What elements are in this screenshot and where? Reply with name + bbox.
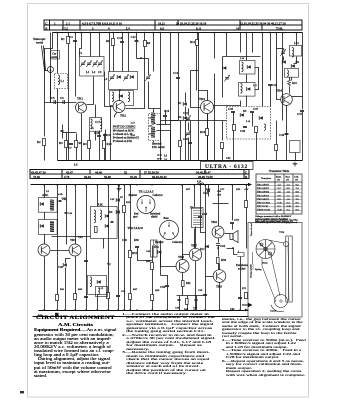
svg-text:R1: R1	[61, 37, 65, 41]
IF transformer box L10 FM	[240, 61, 256, 75]
wire R58 top	[246, 185, 248, 201]
wire C14 top	[178, 33, 180, 78]
resistor R16	[200, 129, 209, 136]
svg-text:44,40: 44,40	[95, 171, 102, 175]
junction dots bus2	[43, 184, 247, 186]
wire emitter row	[177, 295, 204, 297]
coil box L15b	[285, 69, 299, 78]
capacitor C7b	[61, 131, 64, 132]
capacitor C37	[250, 107, 259, 113]
wire T1 feed top	[194, 185, 196, 208]
wire r16 down	[207, 136, 209, 161]
junction dots bus3	[43, 309, 241, 311]
switch contact 2	[150, 123, 156, 126]
svg-text:C45: C45	[110, 198, 115, 201]
AM IFT6 box	[88, 276, 107, 295]
svg-text:R62: R62	[186, 282, 191, 285]
diode D6	[291, 61, 299, 68]
choke L19 on bus	[198, 183, 204, 185]
wire trimmer bank feed 2	[99, 33, 101, 57]
resistor R3	[59, 141, 68, 148]
wire to TR9	[218, 264, 220, 272]
wire TR5 collector rail	[75, 185, 77, 245]
svg-text:TR6: TR6	[178, 255, 184, 259]
resistor R65	[107, 293, 110, 299]
wire det feed stub	[226, 33, 228, 57]
AM IFT4 box	[39, 198, 58, 213]
svg-text:TR3: TR3	[199, 97, 205, 101]
wire TR4 collector link	[292, 96, 303, 98]
wire to speaker	[225, 233, 230, 235]
svg-text:TR7: TR7	[191, 244, 197, 248]
wire C10 btm	[122, 43, 124, 72]
svg-text:54,46,53,47: 54,46,53,47	[196, 171, 211, 175]
transistor pinout TR6-10 circle	[160, 221, 179, 240]
svg-text:(V): (V)	[295, 179, 298, 182]
ground TR4 stage	[293, 162, 298, 166]
svg-text:Transistor Table: Transistor Table	[269, 169, 290, 173]
svg-text:Base: Base	[286, 177, 291, 179]
wire TR9 emitter	[219, 283, 221, 311]
capacitor C47	[297, 111, 304, 117]
svg-text:TR1 AF117: TR1 AF117	[257, 184, 270, 187]
dial slider inner	[288, 237, 290, 301]
capacitor C61	[238, 298, 242, 299]
svg-text:C64: C64	[220, 244, 226, 248]
capacitor C46	[279, 133, 289, 137]
resistor R18 zigzag	[288, 79, 291, 86]
capacitor C51b	[84, 297, 88, 298]
arrow 2A node	[157, 158, 167, 162]
resistor R17	[179, 141, 182, 147]
svg-text:22,91,34,32,33 30,94 36 40,21,: 22,91,34,32,33 30,94 36 40,21,27 26	[240, 21, 286, 25]
wire if rail 2	[198, 33, 200, 91]
wire R4 btm	[89, 149, 91, 161]
wire vertical v1	[252, 33, 254, 53]
svg-text:(V): (V)	[286, 179, 289, 182]
resistor R61	[56, 295, 59, 301]
FM discriminator box	[91, 207, 118, 239]
IF transformer box L11 FM	[239, 83, 256, 97]
wire c22 up	[188, 109, 190, 116]
wire TR5a emitter	[44, 257, 46, 311]
transistor TR3	[199, 97, 214, 114]
transistor TR7	[189, 244, 201, 261]
diode D11	[200, 245, 209, 252]
wire sch2 lower rail	[33, 316, 249, 318]
coil IFT1 secondary	[100, 119, 102, 129]
svg-text:Base: Base	[164, 217, 170, 220]
wire link y203	[213, 203, 229, 205]
wire socket A down	[50, 73, 52, 103]
wire TR8 collector	[218, 185, 220, 227]
wire R58 btm	[246, 208, 248, 249]
wire R50 btm	[124, 213, 126, 311]
capacitor C49b	[135, 247, 139, 248]
wire earphone down	[240, 257, 242, 311]
wire gnd stub	[119, 185, 121, 187]
tuning trimmer bank box	[80, 57, 105, 77]
wire osc row	[137, 58, 149, 60]
coil winding IFT4	[50, 200, 54, 211]
wire L14 to D6	[294, 57, 297, 64]
wire L14 top	[296, 33, 298, 46]
coil osc ter	[128, 92, 130, 102]
wire r23 down	[256, 133, 258, 140]
bottom row labels	[175, 307, 198, 311]
ground sch2 left	[117, 187, 122, 191]
wire TR6 emitter	[182, 273, 184, 296]
wire C60 btm	[201, 218, 206, 233]
wire jog c16a	[157, 124, 171, 126]
HT arrow sch2	[245, 309, 248, 312]
svg-text:TR7 OC81: TR7 OC81	[257, 205, 269, 208]
svg-text:Coll.: Coll.	[294, 177, 299, 179]
svg-text:D9: D9	[109, 211, 113, 214]
T1 winding lines	[193, 209, 202, 225]
capacitor C58	[178, 300, 181, 301]
svg-text:TR3 AF116: TR3 AF116	[257, 191, 270, 194]
svg-text:29,09 74,58: 29,09 74,58	[198, 175, 213, 179]
wire left rail	[45, 33, 53, 103]
svg-text:socket: socket	[238, 267, 246, 270]
diode AM 3	[97, 280, 101, 284]
svg-text:C4: C4	[69, 35, 73, 39]
wire rail e	[205, 185, 207, 311]
svg-text:Cursor: Cursor	[270, 311, 277, 313]
diode AM det 2	[40, 224, 44, 228]
model label box ULTRA 6132	[201, 162, 254, 170]
wire earth bus bottom	[58, 160, 303, 162]
sch2 bottom labels	[60, 287, 247, 293]
junction osc	[140, 57, 142, 59]
wire c61 up	[208, 185, 210, 191]
wire c44 low	[66, 214, 68, 245]
wire TR5 base link	[51, 250, 70, 252]
index bar 2 row R text	[33, 175, 248, 179]
wire rail r1 low	[214, 74, 216, 161]
wire C10 top	[122, 33, 124, 42]
svg-text:R51: R51	[132, 251, 138, 255]
wire agc drop 2	[222, 121, 224, 141]
wire box to bus 1	[233, 140, 235, 161]
wire rail r1	[214, 33, 216, 59]
index bar 1 row C text	[45, 21, 286, 25]
svg-text:R56: R56	[221, 258, 227, 262]
wire C57 down	[232, 224, 234, 230]
coil L18 stripes	[151, 127, 155, 137]
coil L17 stripes	[151, 113, 155, 123]
coil L17 winding	[151, 113, 155, 124]
svg-text:R45: R45	[146, 260, 151, 263]
wire osc link	[120, 90, 122, 91]
wire c16 down	[165, 117, 167, 125]
driver transformer T1 box	[192, 208, 204, 228]
resistor R50	[123, 206, 126, 213]
capacitor C56	[160, 285, 169, 289]
dial pulley hub	[280, 300, 282, 302]
scan mark bottom left	[20, 391, 24, 393]
svg-text:shield: shield	[151, 216, 158, 219]
capacitor C53	[116, 296, 120, 297]
diode in L11	[247, 87, 251, 91]
wire trimmer bank feed	[90, 33, 92, 57]
wire sch2 bottom bus	[39, 310, 249, 312]
alignment text column 3	[222, 318, 306, 378]
wire c60b down	[196, 301, 198, 311]
wire C14 btm	[178, 79, 180, 121]
wire R1 bottom	[68, 44, 70, 161]
resistor R23	[255, 127, 258, 133]
svg-text:TR4 AF114: TR4 AF114	[257, 194, 270, 197]
wire R3 top	[66, 133, 68, 141]
svg-text:C53: C53	[121, 290, 126, 293]
wire rail f	[232, 185, 234, 221]
svg-text:F=closed on F.M.: F=closed on F.M.	[113, 140, 133, 143]
wire gang link	[80, 33, 82, 57]
svg-text:56,80: 56,80	[104, 175, 111, 179]
wire det right link	[255, 68, 259, 90]
svg-text:5 L2: 5 L2	[62, 26, 68, 30]
svg-text:TR2 AF117: TR2 AF117	[257, 187, 270, 190]
car aerial socket box	[51, 51, 60, 60]
svg-text:Collector: Collector	[153, 194, 164, 197]
resistor R58	[245, 201, 248, 208]
arrow L6 node	[157, 154, 168, 158]
wire R18 link	[289, 78, 291, 80]
svg-text:TR5: TR5	[78, 236, 83, 239]
svg-text:4.5B: 4.5B	[58, 193, 63, 196]
junction TR8-9	[217, 247, 219, 249]
wire r66 up	[187, 296, 189, 299]
wire earphone feed	[227, 249, 238, 255]
svg-text:Collector: Collector	[172, 241, 183, 244]
wire c44 top	[66, 185, 68, 213]
capacitor C12	[131, 35, 139, 42]
svg-text:R57: R57	[186, 188, 191, 191]
wire rail r3	[270, 33, 272, 81]
svg-text:Tuning spindle: Tuning spindle	[250, 264, 253, 278]
svg-text:C62: C62	[230, 308, 235, 311]
component index bar 2 frame	[30, 170, 249, 179]
capacitor C50	[84, 261, 88, 262]
wire C36 top	[283, 49, 285, 51]
bus2 end arrow	[244, 183, 252, 191]
transistor TR6	[176, 255, 189, 273]
wire right rail low	[302, 112, 304, 161]
wire switch down	[153, 141, 155, 143]
resistor R4	[83, 141, 91, 149]
diode FM 2	[105, 224, 109, 228]
wire ratio feed	[246, 33, 248, 61]
index bar 2 row C text	[31, 171, 247, 175]
svg-text:C43: C43	[62, 198, 67, 201]
dial cord run 3	[262, 258, 276, 302]
svg-text:C37: C37	[253, 107, 259, 111]
wire rail x50	[50, 33, 52, 103]
wire R9 top	[144, 33, 146, 41]
svg-text:ULTRA - 6132: ULTRA - 6132	[205, 164, 248, 170]
wire C36 link	[277, 48, 284, 50]
wire rail r3 low	[270, 86, 272, 107]
svg-text:6,8: 6,8	[160, 26, 164, 30]
svg-text:C59: C59	[198, 289, 203, 292]
resistor R66	[186, 299, 189, 305]
diode D5b	[240, 110, 247, 117]
capacitor C20	[268, 83, 278, 87]
resistor R22	[275, 145, 278, 151]
component index bar 1 frame	[44, 20, 302, 30]
dial cursor bracket	[271, 305, 284, 312]
svg-text:Drum: Drum	[262, 263, 268, 265]
svg-text:C49: C49	[146, 250, 151, 253]
svg-text:F.M. aerial: F.M. aerial	[152, 146, 165, 149]
wire TR2 out	[126, 59, 145, 109]
capacitor C46b	[111, 222, 114, 223]
svg-text:TR8: TR8	[211, 220, 217, 224]
wire C56 down	[167, 287, 169, 311]
wire TR3 emitter	[207, 114, 209, 161]
wire TR2 collector up	[119, 90, 121, 101]
wire r22 top	[276, 121, 278, 145]
trimmer det	[224, 75, 230, 82]
wire TR4 base rail	[277, 33, 281, 100]
wire TR9 base	[206, 276, 214, 278]
wire TR9 collector	[219, 264, 221, 270]
wire to FM aerial	[149, 82, 161, 109]
svg-text:C7: C7	[68, 146, 72, 150]
transistor pinout TR1-5 circle	[137, 196, 155, 214]
wire c7b up	[62, 125, 64, 131]
dial cord run 1	[268, 240, 289, 301]
volume control	[151, 240, 158, 257]
wire TR4 emitter	[286, 106, 288, 161]
svg-text:R71: R71	[242, 287, 247, 290]
diode AM det	[40, 202, 44, 206]
wire C4 bottom	[75, 42, 77, 97]
loudspeaker	[230, 231, 238, 243]
svg-text:43,45,47 50: 43,45,47 50	[31, 171, 46, 175]
wire C12 top	[136, 33, 138, 41]
wire TR7 collector	[195, 227, 197, 249]
capacitor C16	[163, 109, 170, 117]
wire AGC line	[161, 120, 227, 122]
svg-text:R50: R50	[126, 201, 131, 204]
svg-text:C35: C35	[228, 107, 234, 111]
diode D1	[178, 102, 187, 106]
transistor table rows	[257, 184, 299, 212]
wire R5 top	[76, 134, 78, 141]
svg-text:C39: C39	[240, 129, 246, 133]
IF coil box L14	[290, 46, 302, 57]
resistor R71	[245, 293, 248, 299]
wire to TR1 base	[45, 102, 77, 104]
svg-text:20 29,24,21,25,26 19,18: 20 29,24,21,25,26 19,18	[176, 21, 207, 25]
svg-text:L4: L4	[126, 26, 130, 30]
coil L11a	[241, 84, 243, 94]
wire osc down	[110, 106, 112, 161]
capacitor C4	[69, 35, 77, 42]
svg-text:C57: C57	[234, 218, 240, 222]
wire d2 down	[185, 121, 187, 161]
svg-text:C: C	[245, 171, 247, 175]
wire det frame left	[222, 57, 224, 98]
capacitor C44	[65, 213, 68, 214]
wire R50 top	[124, 185, 126, 206]
svg-text:36,02: 36,02	[84, 175, 91, 179]
wire R10 btm	[104, 149, 106, 161]
wire D5 up	[66, 259, 71, 264]
resistor R21	[233, 125, 236, 131]
wire left rail lower	[44, 103, 46, 137]
svg-text:C12: C12	[131, 35, 137, 39]
svg-text:C10: C10	[117, 36, 123, 40]
wire TR8 emitter	[218, 239, 220, 243]
svg-text:R16: R16	[200, 130, 206, 134]
wire FM det feed	[97, 185, 99, 207]
wire IFT4 feed	[44, 185, 46, 198]
svg-text:C: C	[45, 21, 47, 25]
wire TR8 emitter 2	[218, 246, 220, 257]
wire TR1 collector	[87, 97, 94, 105]
wire c60b up	[196, 296, 198, 300]
wire R48 top	[152, 246, 154, 263]
svg-text:TR8/9 OC81: TR8/9 OC81	[257, 208, 271, 211]
capacitor C10	[117, 36, 124, 43]
wire trimmer bank down	[93, 77, 95, 97]
coil L14	[90, 277, 92, 287]
svg-text:TR6 OC81D: TR6 OC81D	[257, 201, 270, 204]
wire mid rail low	[160, 109, 162, 161]
resistor R41	[95, 227, 98, 233]
capacitor C6	[60, 96, 65, 104]
trimmer C11	[109, 74, 115, 81]
wire C49 btm	[138, 248, 146, 261]
wire vertical v3b	[282, 53, 284, 121]
wire TR3 collector	[199, 91, 208, 101]
svg-text:R67: R67	[133, 288, 138, 291]
AM detector AGC dashed box	[227, 107, 271, 140]
svg-text:52: 52	[124, 171, 128, 175]
wire IFT5 down	[44, 235, 46, 245]
wire mid rail 2 low	[170, 61, 172, 161]
wire c22-c28	[188, 123, 190, 131]
svg-text:C5: C5	[51, 96, 55, 100]
earphone socket symbol	[237, 251, 244, 257]
svg-text:57 55,56,58: 57 55,56,58	[144, 171, 159, 175]
capacitor C39	[240, 127, 247, 134]
resistor R69	[151, 295, 154, 301]
wire R10 top	[104, 134, 106, 141]
wire TR5 emitter	[75, 257, 77, 311]
svg-text:R3: R3	[59, 141, 63, 145]
svg-text:TR2: TR2	[120, 114, 126, 118]
wire R6t btm	[113, 46, 115, 72]
transistor table frame	[256, 174, 302, 214]
svg-text:C56: C56	[160, 285, 166, 289]
svg-text:C61: C61	[203, 191, 209, 195]
transistor TR2	[113, 101, 126, 118]
wire C18 top	[99, 131, 101, 136]
wire FM det down	[103, 239, 105, 249]
wire r17 top	[180, 121, 182, 141]
svg-text:C18: C18	[94, 131, 100, 135]
svg-text:4,5 6 6,7 5,76B 8,6,9,10,11 9: 4,5 6 6,7 5,76B 8,6,9,10,11 9 16	[82, 21, 122, 25]
dial pointer slider bar	[286, 236, 292, 302]
table footnote text	[255, 215, 293, 223]
wire TR3 out	[214, 101, 241, 106]
wire TR2 base	[105, 72, 114, 107]
